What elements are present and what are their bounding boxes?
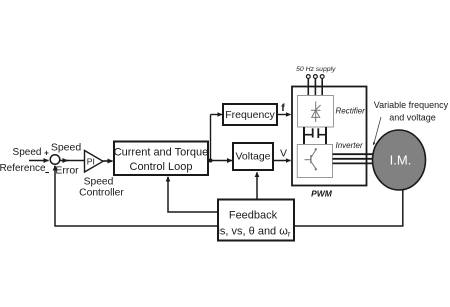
summing junction S1 — [50, 155, 60, 165]
svg-text:Variable frequency: Variable frequency — [374, 100, 449, 110]
wire: feedback to voltage block — [256, 172, 258, 199]
svg-text:Frequency: Frequency — [225, 109, 275, 121]
svg-text:Control Loop: Control Loop — [130, 161, 193, 173]
svg-text:+: + — [44, 149, 49, 158]
wire: f into PWM converter — [277, 114, 291, 116]
label: minus sign at summing junction — [45, 172, 49, 174]
svg-text:Reference: Reference — [0, 163, 46, 174]
wire: supply line 2 — [314, 79, 316, 97]
wire: inverter output phase 3 — [333, 162, 375, 164]
svg-text:V: V — [280, 148, 287, 160]
wire: annotation arrow to motor leads — [374, 117, 382, 145]
thyristor D1 inside rectifier — [311, 102, 321, 123]
wire: summing junction to PI controller — [60, 160, 68, 162]
node: speed error label — [51, 142, 82, 177]
svg-text:is, vs, θ and ωr: is, vs, θ and ωr — [217, 226, 290, 239]
block: inverter box — [297, 145, 332, 178]
wire: feedback to summing junction — [55, 166, 218, 226]
svg-text:Inverter: Inverter — [336, 141, 363, 150]
svg-text:PWM: PWM — [311, 189, 333, 199]
block: Frequency — [223, 104, 277, 125]
svg-text:Voltage: Voltage — [235, 151, 270, 163]
svg-text:Speed: Speed — [13, 147, 42, 158]
svg-text:Current and Torque: Current and Torque — [114, 147, 209, 159]
block: Feedback — [217, 200, 294, 241]
svg-text:Feedback: Feedback — [229, 210, 278, 222]
wire: speed reference input arrow into summing junction — [29, 160, 49, 162]
block: Voltage — [233, 143, 273, 170]
wire: PI controller to control loop block — [103, 160, 113, 162]
node: junction dot — [209, 159, 213, 163]
wire: inverter output phase 1 — [333, 153, 375, 155]
svg-text:50 Hz supply: 50 Hz supply — [296, 66, 336, 73]
block: PWM converter outer box — [292, 87, 367, 186]
wire: supply line 1 — [307, 79, 309, 97]
op-amp style PI speed controller U1 — [85, 151, 104, 173]
svg-text:Controller: Controller — [79, 188, 124, 199]
svg-text:I.M.: I.M. — [390, 153, 412, 168]
svg-text:and voltage: and voltage — [389, 113, 436, 123]
wire: control loop output to junction — [208, 160, 211, 162]
svg-text:Rectifier: Rectifier — [336, 107, 366, 116]
svg-text:Speed: Speed — [51, 142, 82, 154]
wire: V into PWM converter — [273, 160, 291, 162]
node: speed reference input label — [0, 147, 46, 174]
wire: junction into Voltage block — [211, 160, 233, 162]
wire: feedback to control loop block — [168, 177, 218, 212]
label: speed controller — [79, 177, 124, 199]
wire: branch into Frequency block — [211, 114, 223, 116]
wire: DC link right rail — [325, 127, 327, 145]
supply terminal L3 — [320, 75, 324, 79]
block: Current and Torque Control Loop — [114, 142, 209, 176]
wire: supply line 3 — [321, 79, 323, 97]
supply terminal L1 — [306, 75, 310, 79]
transistor Q1 inside inverter — [305, 148, 317, 170]
wire: inverter output phase 2 — [333, 158, 374, 160]
block: rectifier box — [298, 96, 334, 128]
svg-text:f: f — [281, 102, 285, 114]
wire: DC link left rail — [303, 127, 305, 145]
capacitor C1 DC link — [304, 128, 326, 138]
supply terminal L2 — [314, 75, 318, 79]
motor M1 induction machine — [373, 130, 426, 190]
svg-text:Error: Error — [55, 165, 79, 177]
wire: junction up to frequency branch — [210, 115, 212, 161]
label: variable frequency and voltage — [374, 100, 449, 123]
svg-text:Speed: Speed — [84, 177, 114, 188]
svg-text:PI: PI — [87, 156, 95, 166]
wire: motor to feedback block — [294, 190, 403, 226]
